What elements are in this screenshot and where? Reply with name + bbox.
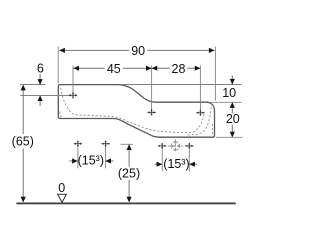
svg-text:(15³): (15³) [78,154,104,168]
svg-text:45: 45 [107,62,121,76]
svg-text:90: 90 [131,44,145,58]
svg-text:20: 20 [226,112,240,126]
svg-text:0: 0 [58,181,65,195]
svg-text:10: 10 [222,86,236,100]
svg-text:28: 28 [172,62,186,76]
svg-text:(15³): (15³) [163,157,189,171]
svg-text:(25): (25) [118,166,140,180]
svg-text:(65): (65) [12,134,34,148]
svg-text:6: 6 [37,62,44,76]
